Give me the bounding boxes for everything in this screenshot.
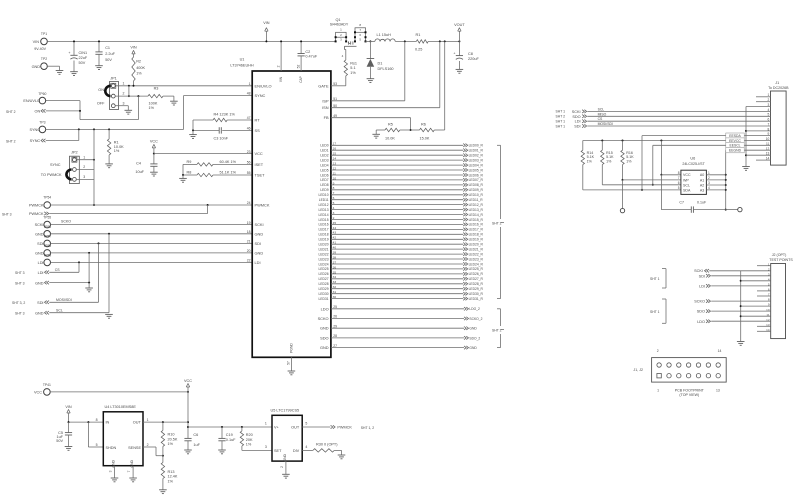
svg-text:EEGND: EEGND: [729, 149, 742, 153]
off-page LDI J1: [556, 117, 771, 124]
svg-text:1%: 1%: [168, 479, 174, 483]
svg-text:C6: C6: [193, 433, 198, 437]
net arrow VCC bottom: [184, 379, 192, 392]
wire SHDN tie: [88, 422, 103, 447]
svg-text:ISN: ISN: [322, 105, 329, 110]
svg-text:SCKI: SCKI: [35, 223, 44, 227]
U1 pin LED21: [319, 246, 337, 252]
U1 pin 48 SYNC: [247, 92, 266, 98]
node LED16_R: [463, 223, 483, 227]
wire LED3 net: [331, 159, 463, 161]
turret TP57 SDI: [37, 235, 51, 247]
svg-text:+: +: [68, 51, 70, 55]
wire VCC vertical: [187, 392, 189, 439]
svg-text:400K: 400K: [136, 66, 145, 70]
svg-text:24: 24: [247, 201, 251, 205]
svg-text:SDI: SDI: [699, 274, 705, 278]
oscillator U5 LTC1799CS5: [265, 408, 308, 461]
svg-text:LED31_R: LED31_R: [469, 297, 484, 301]
U1 pin LED29: [319, 285, 337, 291]
svg-text:LED9: LED9: [320, 188, 328, 192]
node LED29_R: [463, 287, 483, 291]
svg-text:LED23: LED23: [319, 257, 329, 261]
svg-text:R8: R8: [187, 171, 192, 175]
svg-text:0.25: 0.25: [415, 47, 422, 51]
svg-text:TP55: TP55: [43, 216, 51, 220]
svg-text:C19: C19: [226, 433, 233, 437]
svg-text:SHT 1: SHT 1: [556, 124, 566, 128]
resistor R3 100K: [148, 87, 174, 110]
svg-text:JP1: JP1: [110, 76, 117, 80]
svg-text:LED17: LED17: [319, 228, 329, 232]
capacitor C7 0.1uF: [661, 175, 725, 213]
svg-text:J1: J1: [775, 81, 779, 85]
wire LED9 net: [331, 189, 463, 191]
svg-text:LED24: LED24: [319, 262, 329, 266]
wire LED1 net: [331, 149, 463, 151]
off-page SCKI J1: [556, 107, 771, 114]
svg-text:LED26: LED26: [319, 272, 329, 276]
svg-text:LED0: LED0: [320, 144, 328, 148]
svg-text:5.1: 5.1: [350, 66, 355, 70]
svg-text:SDI: SDI: [37, 301, 43, 305]
svg-text:1%: 1%: [168, 442, 174, 446]
svg-text:LDI: LDI: [255, 260, 261, 265]
wire U4 input rail: [68, 421, 104, 423]
svg-text:18: 18: [247, 230, 251, 234]
J1 pin 14: [766, 157, 770, 161]
wire J2 pin9 stub: [741, 305, 771, 307]
svg-text:GND: GND: [35, 281, 44, 285]
wire LED8 net: [331, 184, 463, 186]
svg-text:ON: ON: [98, 88, 104, 92]
U1 pin LED14: [319, 211, 335, 217]
svg-text:SHT 1: SHT 1: [650, 310, 660, 314]
off-page GND B: [15, 234, 109, 316]
svg-text:TP2: TP2: [41, 57, 47, 61]
wire U4 gnd pins: [109, 466, 134, 478]
svg-text:SHT 2: SHT 2: [6, 139, 16, 143]
U1 pin LED12: [319, 201, 335, 207]
svg-text:A2: A2: [700, 183, 704, 187]
svg-text:Si4463ADY: Si4463ADY: [330, 22, 349, 26]
svg-text:56: 56: [247, 161, 251, 165]
terminal E2: [726, 207, 742, 211]
wire VCC rail 2: [188, 426, 272, 428]
turret TP56 GND: [35, 225, 51, 237]
svg-text:U1: U1: [240, 58, 245, 62]
node LED00_R: [463, 144, 483, 148]
svg-text:57: 57: [286, 361, 290, 365]
wire VCC top rail: [50, 391, 189, 393]
svg-text:EESCL: EESCL: [729, 144, 740, 148]
net arrow VIN (R2 top): [130, 46, 137, 54]
svg-text:LED28: LED28: [319, 282, 329, 286]
wire LED21 net: [331, 248, 463, 250]
J1 pin 2: [768, 98, 770, 102]
svg-text:LDI: LDI: [699, 284, 705, 288]
wire VIN rail: [47, 40, 335, 42]
node LED11_R: [463, 198, 483, 202]
svg-text:LDI: LDI: [575, 120, 581, 124]
ground: [367, 79, 375, 83]
svg-text:LED26_R: LED26_R: [469, 272, 484, 276]
svg-text:SCL: SCL: [56, 309, 63, 313]
svg-text:DIV: DIV: [293, 449, 300, 453]
svg-text:LED12: LED12: [319, 203, 329, 207]
svg-text:55: 55: [247, 171, 251, 175]
resistor R13 12.4K: [161, 456, 178, 490]
node LED24_R: [463, 262, 483, 266]
svg-text:TP54: TP54: [43, 196, 51, 200]
capacitor CIN1: [68, 40, 87, 71]
svg-text:VIN: VIN: [263, 21, 270, 25]
capacitor C3 10nF: [192, 127, 252, 140]
svg-text:CS: CS: [55, 268, 61, 272]
svg-text:SCKI: SCKI: [572, 110, 581, 114]
wire U4 OUT rail: [143, 421, 188, 423]
svg-text:0.1uF: 0.1uF: [697, 200, 707, 204]
J2 pin 11: [766, 313, 769, 317]
node LED20_R: [463, 243, 483, 247]
J2 pin 9: [768, 303, 770, 307]
bracket SHT 2 serial bus: [492, 309, 504, 348]
svg-text:LED4: LED4: [320, 163, 328, 167]
svg-text:LED02_R: LED02_R: [469, 154, 484, 158]
node LED01_R: [463, 149, 483, 153]
svg-text:SHT 3: SHT 3: [2, 212, 12, 216]
svg-text:27: 27: [333, 344, 337, 348]
J2 pin 10: [766, 308, 770, 312]
svg-text:LED29_R: LED29_R: [469, 287, 484, 291]
svg-text:GND: GND: [32, 65, 41, 69]
svg-text:VCC: VCC: [184, 379, 192, 383]
U1 pin LED3: [320, 157, 336, 163]
svg-text:LED14_R: LED14_R: [469, 213, 484, 217]
svg-text:ISET: ISET: [255, 162, 264, 167]
U1 pin LED7: [320, 176, 336, 182]
U1 pin 46 SS: [247, 127, 260, 133]
svg-text:9V-40V: 9V-40V: [34, 47, 46, 51]
U1 pin LED8: [320, 181, 334, 187]
footprint pads: [657, 349, 722, 397]
node LED05_R: [463, 168, 483, 172]
U1 pin LED13: [319, 206, 335, 212]
svg-text:1: 1: [123, 81, 125, 85]
svg-text:SCKO: SCKO: [61, 219, 71, 223]
svg-text:LED16: LED16: [319, 223, 329, 227]
svg-text:LED18: LED18: [319, 233, 329, 237]
off-page SYNC: [6, 129, 79, 143]
U1 pin 2 VIN: [276, 40, 283, 82]
svg-text:LED30_R: LED30_R: [469, 292, 484, 296]
ground: [105, 164, 113, 168]
svg-text:TP1: TP1: [41, 32, 47, 36]
wire LED22 net: [331, 253, 463, 255]
svg-text:LED11_R: LED11_R: [469, 198, 484, 202]
svg-text:LED11: LED11: [319, 198, 329, 202]
svg-text:1%: 1%: [587, 159, 593, 163]
svg-text:LED29: LED29: [319, 287, 329, 291]
svg-text:SHT 3, 2: SHT 3, 2: [12, 301, 25, 305]
svg-text:47: 47: [247, 116, 251, 120]
jumper JP1: [97, 76, 125, 109]
svg-text:EN/UVLO: EN/UVLO: [23, 99, 40, 103]
svg-text:LED25: LED25: [319, 267, 329, 271]
svg-text:SDO: SDO: [320, 335, 328, 340]
U1 pin LED18: [319, 231, 337, 237]
svg-text:GATE: GATE: [318, 83, 329, 88]
ground: [105, 314, 113, 318]
svg-text:14: 14: [718, 349, 722, 353]
resistor Rs1 5.1: [344, 50, 357, 86]
wire J1 pin14 stub: [756, 159, 771, 161]
wire GND net: [331, 347, 464, 349]
wire EN/UVLO to U1 pin 1: [115, 85, 252, 87]
wire GND rail: [51, 233, 253, 235]
ground: [372, 130, 380, 138]
wire JP2 vertical: [93, 129, 95, 206]
wire U5 gnd: [280, 461, 286, 474]
svg-text:IN: IN: [106, 421, 110, 425]
connector J1 To DC2026B: [768, 81, 789, 165]
wire LED6 net: [331, 174, 463, 176]
U1 pin LED15: [319, 216, 335, 222]
svg-text:LED04_R: LED04_R: [469, 163, 484, 167]
wire LED7 net: [331, 179, 463, 181]
svg-text:LED1: LED1: [320, 149, 328, 153]
node LED26_R: [463, 272, 483, 276]
off-page GND A: [15, 253, 90, 285]
svg-text:R9: R9: [187, 160, 192, 164]
J2 pin 12: [766, 318, 770, 322]
svg-text:3: 3: [109, 470, 113, 472]
U1 pin 18 GND: [247, 230, 264, 236]
wire LED0 net: [331, 144, 463, 146]
U1 pin LED19: [319, 236, 337, 242]
wire LED10 net: [331, 194, 463, 196]
wire J1 pin3 gnd: [746, 106, 771, 108]
footprint J1 J2 outline: [633, 358, 726, 383]
node GND: [464, 346, 477, 350]
U1 pin LED28: [319, 280, 337, 286]
wire VCC row: [661, 174, 681, 176]
J1 pin 4: [768, 108, 770, 112]
ground: [125, 110, 133, 114]
svg-text:1: 1: [657, 388, 659, 392]
capacitor C19 0.1uF: [218, 427, 236, 450]
U1 pin 29 GND: [320, 324, 337, 330]
net arrow VCC: [150, 140, 158, 155]
node EESDA label: [726, 133, 744, 138]
svg-text:1%: 1%: [606, 159, 612, 163]
J2 pin 7: [768, 293, 770, 297]
svg-text:TSET: TSET: [255, 173, 266, 178]
node LED22_R: [463, 252, 483, 256]
svg-text:MOSI/SDI: MOSI/SDI: [598, 122, 613, 126]
U1 pin LED25: [319, 265, 337, 271]
ground: [170, 96, 178, 105]
svg-text:SHT 3: SHT 3: [15, 271, 25, 275]
U1 pin LED10: [319, 191, 335, 197]
svg-text:20: 20: [247, 249, 251, 253]
J2 pin 13: [766, 323, 770, 327]
wire ISP sense: [331, 41, 405, 100]
node LED19_R: [463, 238, 483, 242]
svg-text:SCKI: SCKI: [255, 222, 264, 227]
U1 pin 1 EN/UVLO: [249, 82, 272, 88]
svg-text:ON: ON: [34, 110, 40, 114]
svg-text:LED00_R: LED00_R: [469, 144, 484, 148]
svg-text:EESDA: EESDA: [729, 134, 741, 138]
wire LED11 net: [331, 199, 463, 201]
turret TP54 PWMCK: [29, 196, 51, 209]
svg-text:PWMCK: PWMCK: [29, 212, 44, 216]
off-page SCKI J2: [694, 269, 771, 273]
wire J1 pin1 stub: [756, 96, 771, 98]
svg-text:LED15: LED15: [319, 218, 329, 222]
ground: [282, 474, 290, 478]
turret TP2 GND: [32, 57, 48, 69]
svg-text:J1, J2: J1, J2: [633, 368, 643, 372]
svg-text:LED19: LED19: [319, 238, 329, 242]
svg-text:U4 LT3010EMS8E: U4 LT3010EMS8E: [105, 405, 137, 409]
svg-text:1%: 1%: [114, 149, 120, 153]
wire LED15 net: [331, 219, 463, 221]
wire VCC to U1 pin 23: [154, 153, 252, 155]
svg-text:7: 7: [127, 470, 131, 472]
node LED30_R: [463, 292, 483, 296]
svg-text:GND: GND: [320, 326, 329, 331]
node SW / wire: [366, 40, 375, 42]
svg-text:1: 1: [708, 171, 710, 175]
off-page PWMCK out: [302, 425, 374, 430]
svg-text:SCKO: SCKO: [318, 316, 329, 321]
svg-text:10uF: 10uF: [135, 170, 144, 174]
connector J2 test points: [769, 253, 793, 339]
svg-text:ISP: ISP: [322, 98, 329, 103]
svg-text:LED30: LED30: [319, 292, 329, 296]
wire SENSE: [143, 447, 163, 456]
regulator U4 LT3010EMS8E: [96, 405, 149, 468]
svg-text:SDI: SDI: [255, 241, 262, 246]
J2 pin 8: [768, 298, 770, 302]
svg-text:SYNC: SYNC: [30, 139, 41, 143]
svg-text:OFF: OFF: [97, 101, 105, 105]
svg-text:VCC: VCC: [34, 391, 42, 395]
U1 pin 28 SDO: [320, 334, 337, 340]
node EESCL label: [726, 143, 744, 148]
svg-text:CIN1: CIN1: [79, 51, 88, 55]
wire: [182, 164, 184, 176]
wire JP1 pin3: [115, 106, 128, 111]
svg-text:13: 13: [716, 388, 720, 392]
ground: [179, 175, 187, 182]
node LED18_R: [463, 233, 483, 237]
svg-text:V+: V+: [274, 425, 280, 429]
ground: [338, 455, 346, 459]
svg-text:LED22_R: LED22_R: [469, 252, 484, 256]
wire LED19 net: [331, 238, 463, 240]
wire PWMCK rail: [51, 204, 253, 206]
resistor R8 51.1K TSET: [183, 171, 252, 177]
node LED04_R: [463, 163, 483, 167]
U1 pin 57 PGND: [286, 343, 293, 371]
resistor R15 5.1K: [601, 141, 614, 185]
svg-text:LDO_2: LDO_2: [469, 307, 480, 311]
svg-text:SHT 2: SHT 2: [492, 329, 502, 333]
resistor R5 10.0K: [376, 122, 411, 140]
svg-text:PWMCK: PWMCK: [337, 426, 352, 430]
wire J2 pin13 stub: [757, 325, 771, 327]
svg-text:SHT 2: SHT 2: [6, 110, 16, 114]
resistor R10 20.5K: [161, 422, 178, 457]
svg-text:2: 2: [83, 165, 85, 169]
wire J2 pin14 stub: [757, 330, 771, 332]
svg-text:VIN: VIN: [65, 405, 72, 409]
svg-text:LED28_R: LED28_R: [469, 282, 484, 286]
svg-text:2: 2: [276, 65, 280, 67]
node LED07_R: [463, 178, 483, 182]
U1 pin 51 ISP: [322, 97, 337, 103]
wire J2 pin6 stub: [757, 290, 771, 292]
svg-text:R6: R6: [421, 122, 426, 126]
svg-text:46: 46: [247, 127, 251, 131]
svg-text:To DC2026B: To DC2026B: [768, 86, 789, 90]
svg-text:8: 8: [96, 418, 98, 422]
svg-text:SHT 2: SHT 2: [556, 115, 566, 119]
svg-text:52: 52: [296, 65, 300, 69]
wire SCKI rail: [51, 224, 253, 226]
off-page LDI J2: [699, 284, 771, 288]
svg-text:R2: R2: [136, 60, 141, 64]
J2 pin 1: [768, 262, 770, 266]
J2 pin 2: [768, 267, 770, 271]
svg-text:51.1K 1%: 51.1K 1%: [220, 171, 237, 175]
svg-text:LDI: LDI: [38, 271, 44, 275]
svg-text:SYNC: SYNC: [255, 93, 266, 98]
U1 pin LED16: [319, 221, 337, 227]
wire J1 gnd vertical: [745, 107, 747, 167]
U1 pin LED4: [320, 162, 336, 168]
svg-text:LT3746EUHH: LT3746EUHH: [230, 64, 254, 68]
J1 pin 5: [768, 113, 770, 117]
ground: [65, 447, 73, 451]
svg-text:SDO: SDO: [697, 310, 705, 314]
wire LED26 net: [331, 273, 463, 275]
wire LED25 net: [331, 268, 463, 270]
ground: [456, 69, 464, 73]
svg-text:LED25_R: LED25_R: [469, 267, 484, 271]
U1 pin 25 LDO: [321, 305, 337, 311]
U1 pin 56 ISET: [247, 161, 264, 167]
U1 pin LED1: [320, 147, 336, 153]
svg-text:3: 3: [83, 175, 85, 179]
svg-text:C3 10nF: C3 10nF: [214, 137, 229, 141]
wire LED30 net: [331, 293, 463, 295]
svg-text:CS: CS: [598, 117, 603, 121]
J1 pin 7: [768, 122, 770, 126]
ground: [150, 172, 158, 176]
wire FB: [331, 118, 411, 130]
svg-text:SHDN: SHDN: [106, 446, 117, 450]
svg-text:VCC: VCC: [683, 173, 691, 177]
svg-text:2: 2: [657, 349, 659, 353]
svg-text:FB: FB: [324, 115, 329, 120]
turret TP60 EN/UVLO: [23, 92, 46, 104]
svg-text:10.0K: 10.0K: [385, 136, 395, 140]
svg-text:PWMCK: PWMCK: [29, 204, 44, 208]
